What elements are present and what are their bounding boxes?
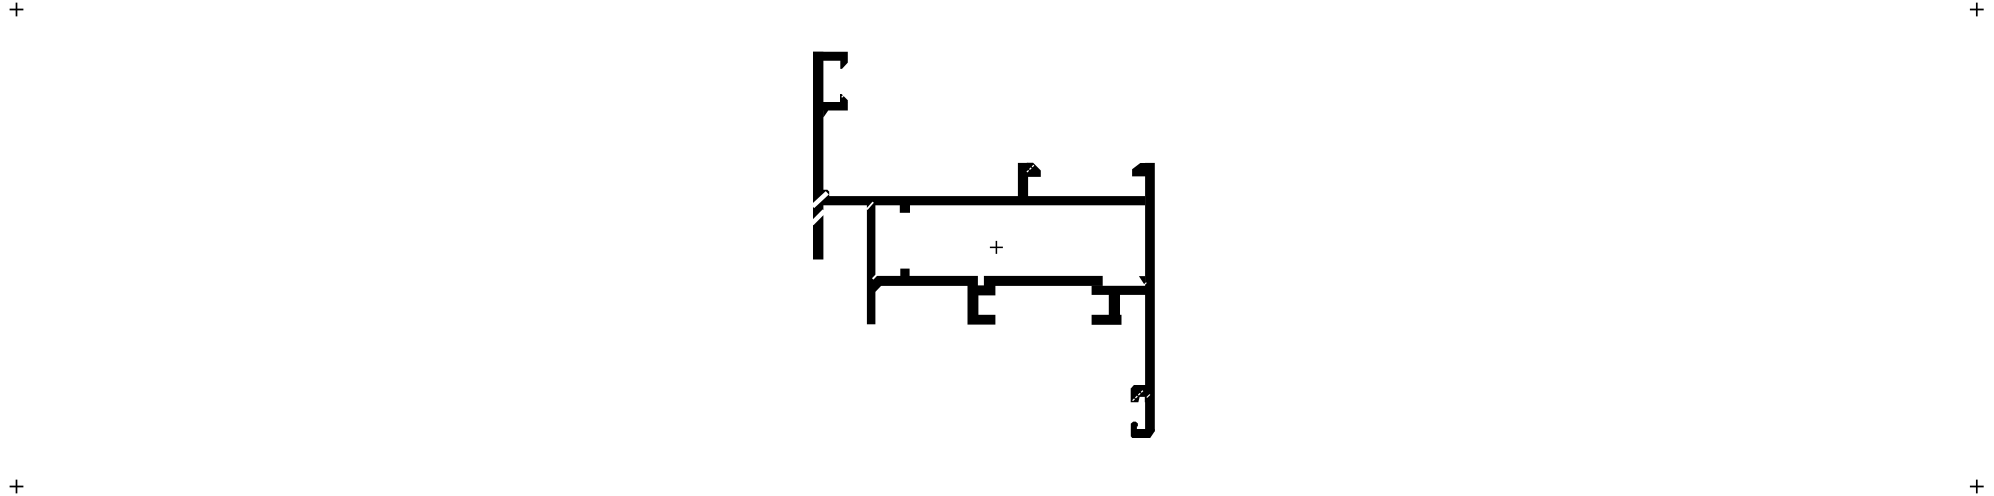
bottom bar of hook xyxy=(1131,429,1155,438)
left screw channel foot xyxy=(968,315,996,325)
fillet below inner band xyxy=(875,285,882,292)
white break slash 1 at junction xyxy=(813,193,828,207)
mid channel foot xyxy=(1092,315,1122,325)
left screw channel wall xyxy=(968,295,979,315)
fillet below second arm xyxy=(823,110,828,117)
registration cross bottom-right xyxy=(1970,480,1984,494)
inner-left wall xyxy=(867,204,876,324)
white nick at snap wedge xyxy=(1144,283,1146,285)
up tooth on second arm xyxy=(840,94,848,102)
glazing flag xyxy=(1027,163,1041,177)
bottom flag on right wall xyxy=(1131,385,1147,402)
hatch tick on bottom flag xyxy=(1133,391,1143,401)
top arm with down tooth xyxy=(813,52,848,69)
registration cross top-right xyxy=(1970,3,1984,17)
registration cross top-left xyxy=(9,9,11,11)
right outer wall xyxy=(1145,163,1155,432)
second arm xyxy=(813,102,848,111)
center mark cross xyxy=(990,241,1003,254)
white nick at up tooth xyxy=(842,96,844,98)
bottom nub xyxy=(1131,422,1138,430)
up tab on inner band xyxy=(900,269,909,277)
glazing stem xyxy=(1018,163,1028,198)
outer-left vertical bar xyxy=(813,52,823,260)
left screw channel lip block xyxy=(968,285,996,295)
down tab on outer line xyxy=(900,204,910,213)
inner band left segment xyxy=(874,276,978,286)
mid shelf xyxy=(1092,286,1147,295)
white nick at inner band left xyxy=(873,273,878,279)
hatch tick on wall at bottom flag xyxy=(1147,395,1150,398)
right top flag xyxy=(1132,163,1146,176)
inner band right segment xyxy=(984,276,1103,286)
white nick at glazing flag xyxy=(1027,165,1034,172)
mid channel stem xyxy=(1109,294,1120,315)
white break slash 2 at junction xyxy=(812,211,825,224)
white slash at bottom flag xyxy=(1138,397,1145,403)
outer top horizontal line xyxy=(813,196,1145,205)
registration cross bottom-left xyxy=(10,480,24,494)
junction nub xyxy=(823,190,830,197)
white nick at inner wall top xyxy=(867,202,873,209)
snap wedge on right wall xyxy=(1139,276,1145,284)
